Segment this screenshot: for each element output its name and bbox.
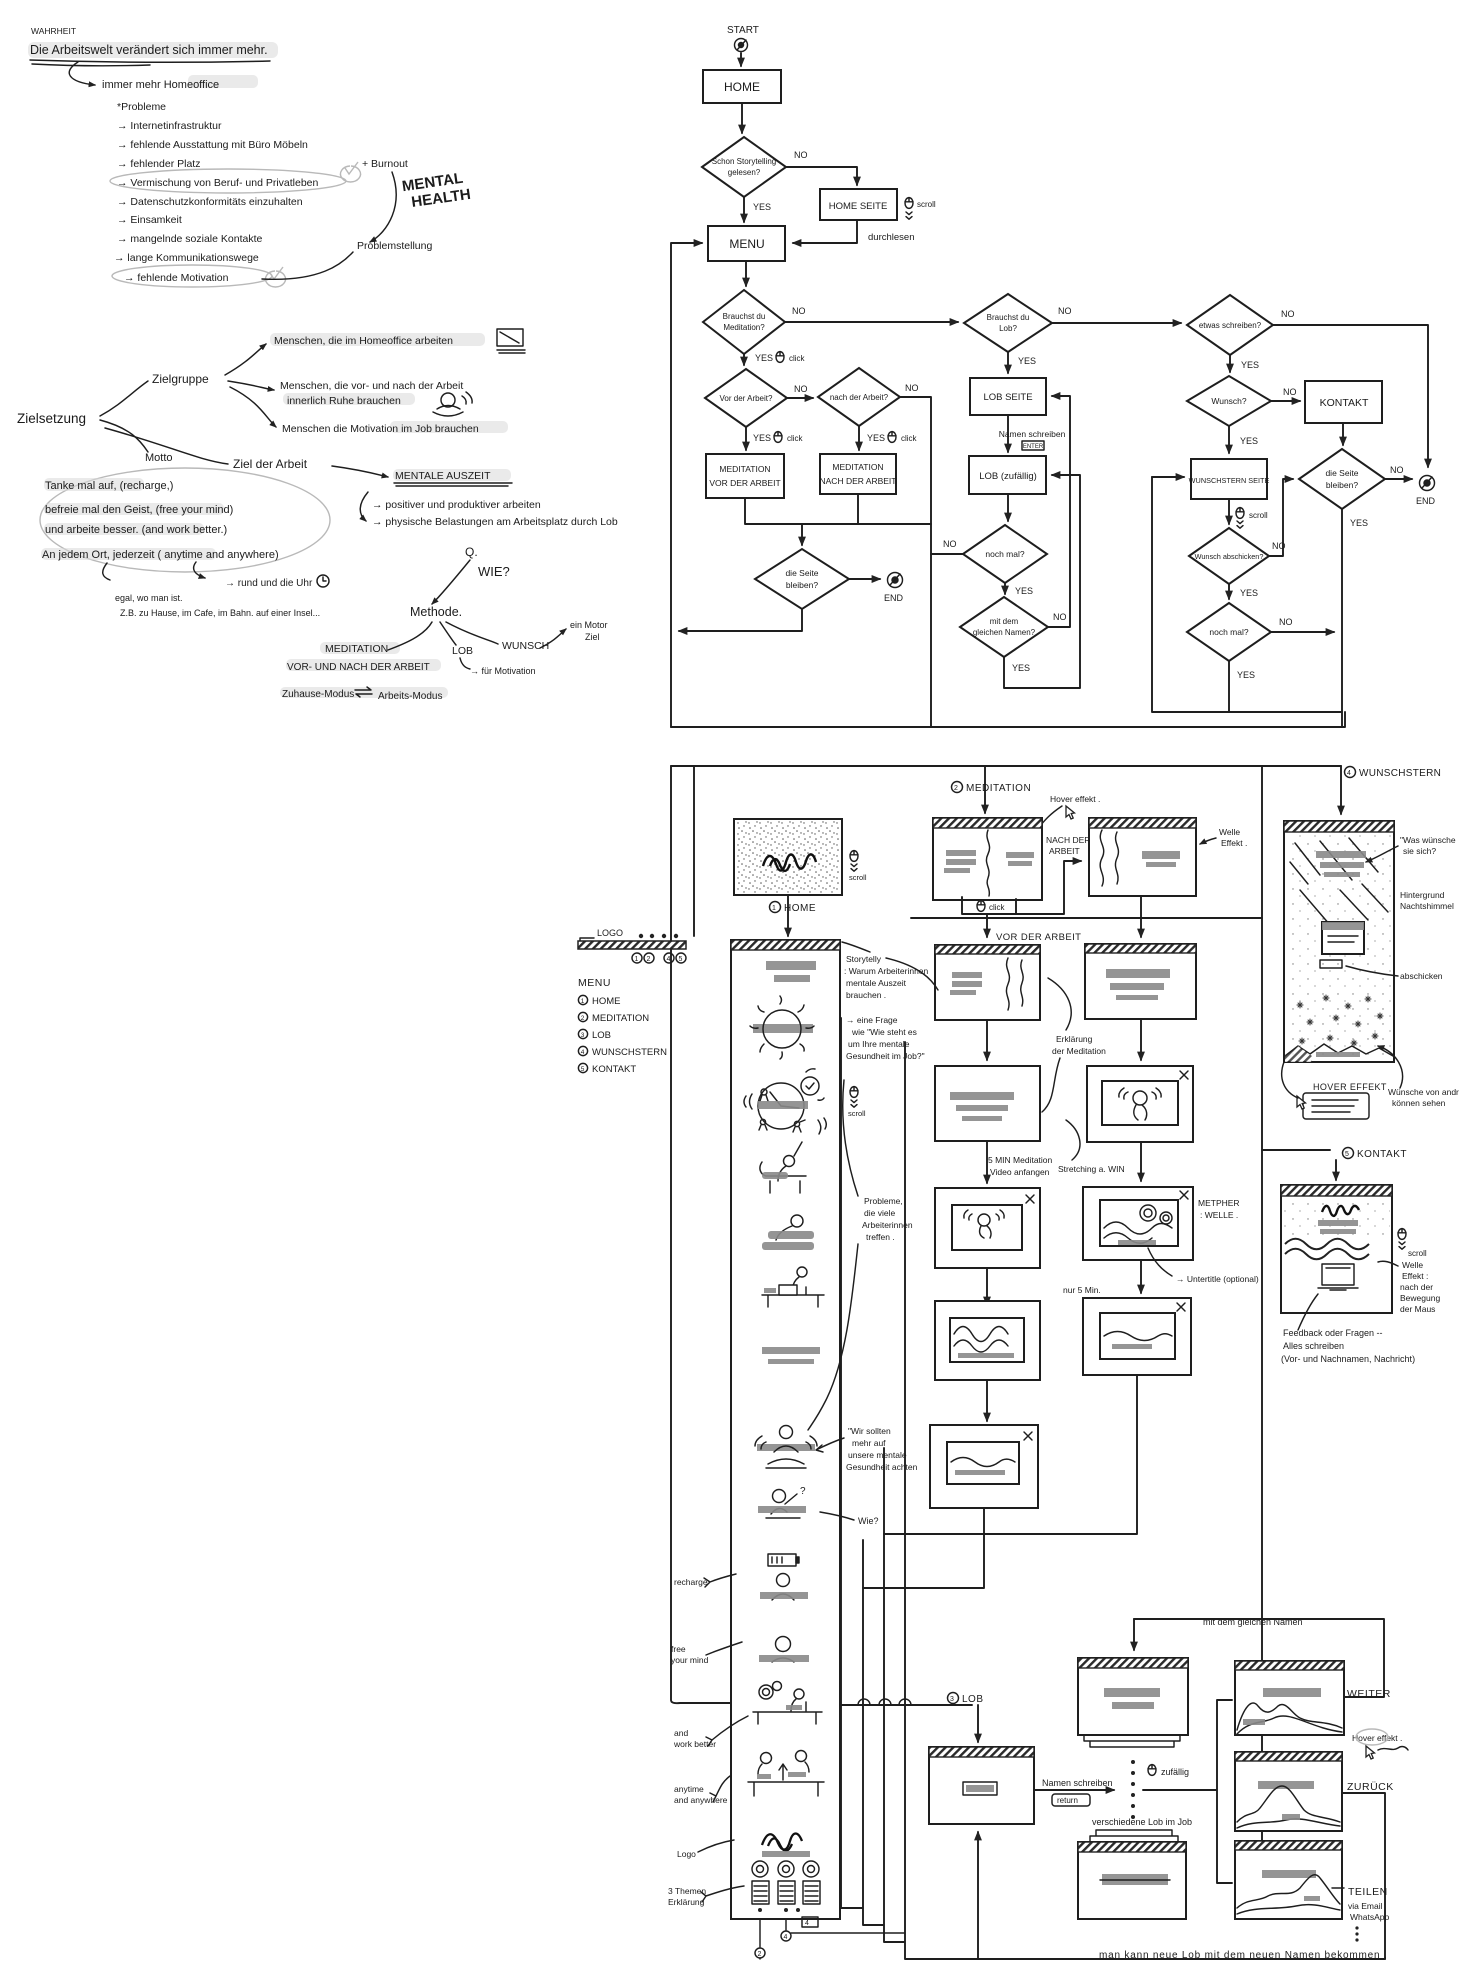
svg-text:KONTAKT: KONTAKT <box>592 1064 636 1075</box>
svg-text:NO: NO <box>1390 465 1404 475</box>
svg-text:anytime: anytime <box>674 1784 704 1794</box>
svg-text:scroll: scroll <box>1249 511 1268 520</box>
svg-text:ein Motor: ein Motor <box>570 620 608 630</box>
svg-text:Hover effekt .: Hover effekt . <box>1050 794 1100 804</box>
svg-text:"Wir sollten: "Wir sollten <box>848 1426 891 1436</box>
svg-text:: Warum Arbeiterinnen: : Warum Arbeiterinnen <box>844 966 929 976</box>
svg-text:WEITER: WEITER <box>1347 1688 1391 1700</box>
svg-text:Arbeits-Modus: Arbeits-Modus <box>378 691 442 702</box>
svg-text:befreie mal den Geist, (free y: befreie mal den Geist, (free your mind) <box>45 504 233 516</box>
svg-text:5: 5 <box>679 956 683 963</box>
svg-text:etwas schreiben?: etwas schreiben? <box>1199 321 1262 330</box>
svg-text:Tanke mal auf, (recharge,): Tanke mal auf, (recharge,) <box>45 480 173 492</box>
svg-text:NACH DER ARBEIT: NACH DER ARBEIT <box>820 476 897 486</box>
svg-text:→ fehlender Platz: → fehlender Platz <box>117 158 200 170</box>
svg-text:2: 2 <box>647 956 651 963</box>
svg-text:END: END <box>1416 496 1436 506</box>
svg-text:Namen schreiben: Namen schreiben <box>1042 1778 1113 1788</box>
svg-text:scroll: scroll <box>848 1109 866 1118</box>
svg-text:WUNSCH: WUNSCH <box>502 640 549 652</box>
svg-text:gleichen Namen?: gleichen Namen? <box>973 628 1036 637</box>
svg-text:NO: NO <box>943 539 957 549</box>
svg-text:YES: YES <box>753 433 771 443</box>
svg-text:Logo: Logo <box>677 1849 696 1859</box>
svg-text:Wunsch abschicken?: Wunsch abschicken? <box>1195 552 1264 561</box>
svg-text:Motto: Motto <box>145 452 173 464</box>
svg-text:die viele: die viele <box>864 1208 895 1218</box>
svg-text:4: 4 <box>667 956 671 963</box>
svg-text:Effekt :: Effekt : <box>1402 1271 1428 1281</box>
svg-text:nach der: nach der <box>1400 1282 1433 1292</box>
svg-text:MEDITATION: MEDITATION <box>325 643 388 655</box>
svg-text:NO: NO <box>792 306 806 316</box>
svg-text:NACH DER: NACH DER <box>1046 835 1090 845</box>
svg-text:YES: YES <box>1240 588 1258 598</box>
svg-text:Brauchst du: Brauchst du <box>723 312 766 321</box>
svg-text:HOME: HOME <box>592 996 621 1007</box>
svg-text:durchlesen: durchlesen <box>868 232 914 243</box>
svg-text:MENU: MENU <box>729 237 764 251</box>
svg-text:5 MIN Meditation: 5 MIN Meditation <box>988 1155 1053 1165</box>
svg-text:nur 5 Min.: nur 5 Min. <box>1063 1285 1101 1295</box>
svg-text:immer mehr Homeoffice: immer mehr Homeoffice <box>102 79 219 91</box>
svg-text:→ positiver und produktiver ar: → positiver und produktiver arbeiten <box>372 499 541 511</box>
svg-text:?: ? <box>800 1486 806 1497</box>
svg-text:3: 3 <box>581 1032 585 1039</box>
svg-text:and: and <box>674 1728 688 1738</box>
svg-text:MENTALE AUSZEIT: MENTALE AUSZEIT <box>395 470 491 482</box>
svg-text:egal, wo man ist.: egal, wo man ist. <box>115 593 183 603</box>
svg-text:die Seite: die Seite <box>785 568 818 578</box>
svg-text:Effekt .: Effekt . <box>1221 838 1247 848</box>
svg-text:3: 3 <box>950 1696 954 1703</box>
svg-text:Problemstellung: Problemstellung <box>357 240 432 252</box>
svg-text:Bewegung: Bewegung <box>1400 1293 1440 1303</box>
svg-text:click: click <box>901 434 918 443</box>
svg-text:*Probleme: *Probleme <box>117 101 166 113</box>
svg-text:NO: NO <box>794 150 808 160</box>
svg-text:recharge: recharge <box>674 1577 708 1587</box>
svg-text:WUNSCHSTERN: WUNSCHSTERN <box>592 1047 667 1058</box>
svg-text:YES: YES <box>1018 356 1036 366</box>
svg-text:YES: YES <box>1237 670 1255 680</box>
svg-text:free: free <box>671 1644 686 1654</box>
svg-text:bleiben?: bleiben? <box>1326 480 1358 490</box>
svg-text:via Email: via Email <box>1348 1901 1383 1911</box>
svg-text:NO: NO <box>1058 306 1072 316</box>
svg-text:nach der Arbeit?: nach der Arbeit? <box>830 393 889 402</box>
svg-text:Storytelly: Storytelly <box>846 954 882 964</box>
svg-text:um Ihre mentale: um Ihre mentale <box>848 1039 910 1049</box>
svg-text:END: END <box>884 593 904 603</box>
svg-text:Zielsetzung: Zielsetzung <box>17 411 86 426</box>
svg-text:mit dem: mit dem <box>990 617 1019 626</box>
svg-text:der Maus: der Maus <box>1400 1304 1435 1314</box>
svg-text:können sehen: können sehen <box>1392 1098 1446 1108</box>
svg-text:ENTER: ENTER <box>1023 444 1044 450</box>
svg-text:Ziel: Ziel <box>585 632 600 642</box>
svg-text:+ Burnout: + Burnout <box>362 158 408 170</box>
svg-text:NO: NO <box>1283 387 1297 397</box>
svg-text:YES: YES <box>1012 663 1030 673</box>
svg-text:→ eine Frage: → eine Frage <box>846 1015 898 1025</box>
svg-text:scroll: scroll <box>849 873 867 882</box>
svg-text:Zuhause-Modus: Zuhause-Modus <box>282 689 354 700</box>
svg-text:WhatsApp: WhatsApp <box>1350 1912 1389 1922</box>
svg-text:noch mal?: noch mal? <box>985 549 1024 559</box>
svg-text:LOB: LOB <box>962 1694 984 1705</box>
svg-text:treffen .: treffen . <box>866 1232 895 1242</box>
svg-text:YES: YES <box>1241 360 1259 370</box>
svg-text:LOB: LOB <box>452 645 473 657</box>
svg-text:MENU: MENU <box>578 977 611 989</box>
svg-text:LOB: LOB <box>592 1030 611 1041</box>
svg-text:NO: NO <box>1279 617 1293 627</box>
svg-text:Lob?: Lob? <box>999 324 1017 333</box>
svg-text:YES: YES <box>1015 586 1033 596</box>
svg-text:zufällig: zufällig <box>1161 1767 1189 1777</box>
svg-text:ZURÜCK: ZURÜCK <box>1347 1781 1394 1793</box>
svg-text:(Vor- und Nachnamen, Nachricht: (Vor- und Nachnamen, Nachricht) <box>1281 1354 1415 1364</box>
svg-text:Methode.: Methode. <box>410 605 462 619</box>
svg-text:Ziel der Arbeit: Ziel der Arbeit <box>233 457 308 471</box>
svg-text:1: 1 <box>581 998 585 1005</box>
svg-text:noch mal?: noch mal? <box>1209 627 1248 637</box>
svg-text:gelesen?: gelesen? <box>728 168 761 177</box>
svg-text:Vor der Arbeit?: Vor der Arbeit? <box>720 394 773 403</box>
svg-text:MEDITATION: MEDITATION <box>966 783 1031 794</box>
svg-text:1: 1 <box>772 905 776 912</box>
svg-text:NO: NO <box>1053 612 1067 622</box>
svg-text:5: 5 <box>1345 1151 1349 1158</box>
svg-text:An jedem Ort, jederzeit ( anyt: An jedem Ort, jederzeit ( anytime and an… <box>42 549 279 561</box>
svg-text:4: 4 <box>581 1049 585 1056</box>
svg-text:und arbeite besser. (and work: und arbeite besser. (and work better.) <box>45 524 227 536</box>
svg-text:→ Datenschutzkonformitäts einz: → Datenschutzkonformitäts einzuhalten <box>117 196 303 208</box>
svg-text:mehr auf: mehr auf <box>852 1438 886 1448</box>
svg-text:click: click <box>789 354 806 363</box>
svg-text:KONTAKT: KONTAKT <box>1320 397 1369 409</box>
svg-text:brauchen .: brauchen . <box>846 990 886 1000</box>
svg-text:"Was wünsche: "Was wünsche <box>1400 835 1456 845</box>
svg-text:VOR DER ARBEIT: VOR DER ARBEIT <box>996 932 1081 943</box>
svg-text:5: 5 <box>581 1066 585 1073</box>
svg-text:VOR DER ARBEIT: VOR DER ARBEIT <box>709 478 780 488</box>
svg-text:1: 1 <box>635 956 639 963</box>
svg-text:click: click <box>787 434 804 443</box>
svg-text:Q.: Q. <box>465 545 478 559</box>
svg-text:NO: NO <box>794 384 808 394</box>
svg-text:2: 2 <box>758 1951 762 1958</box>
svg-text:METPHER: METPHER <box>1198 1198 1240 1208</box>
svg-text:Menschen, die im Homeoffice ar: Menschen, die im Homeoffice arbeiten <box>274 335 453 347</box>
svg-text:Video anfangen: Video anfangen <box>990 1167 1050 1177</box>
svg-text:Welle: Welle <box>1402 1260 1423 1270</box>
svg-text:Wie?: Wie? <box>858 1516 879 1526</box>
svg-text:Erklärung: Erklärung <box>668 1897 705 1907</box>
svg-text:Welle: Welle <box>1219 827 1240 837</box>
svg-text:→ rund und die Uhr: → rund und die Uhr <box>225 578 313 589</box>
svg-text:WUNSCHSTERN: WUNSCHSTERN <box>1359 768 1441 779</box>
svg-text:→ lange Kommunikationswege: → lange Kommunikationswege <box>114 252 259 264</box>
svg-text:wie "Wie steht es: wie "Wie steht es <box>851 1027 917 1037</box>
svg-text:Brauchst du: Brauchst du <box>987 313 1030 322</box>
svg-text:→ Einsamkeit: → Einsamkeit <box>117 214 182 226</box>
svg-text:4: 4 <box>784 1934 788 1941</box>
svg-text:WIE?: WIE? <box>478 564 510 579</box>
svg-text:innerlich Ruhe brauchen: innerlich Ruhe brauchen <box>287 395 401 407</box>
svg-text:der Meditation: der Meditation <box>1052 1046 1106 1056</box>
svg-text:MEDITATION: MEDITATION <box>719 464 770 474</box>
svg-text:YES: YES <box>1350 518 1368 528</box>
svg-text:unsere mentale: unsere mentale <box>848 1450 907 1460</box>
svg-text:Nachtshimmel: Nachtshimmel <box>1400 901 1454 911</box>
svg-text:Gesundheit im Job?": Gesundheit im Job?" <box>846 1051 925 1061</box>
svg-text:NO: NO <box>905 383 919 393</box>
svg-text:HOME: HOME <box>724 80 760 94</box>
svg-text:Stretching a. WIN: Stretching a. WIN <box>1058 1164 1125 1174</box>
svg-text:→ fehlende Motivation: → fehlende Motivation <box>124 272 229 284</box>
svg-text:Alles schreiben: Alles schreiben <box>1283 1341 1344 1351</box>
svg-text:return: return <box>1057 1796 1078 1805</box>
svg-text:4: 4 <box>1347 770 1351 777</box>
svg-text:ARBEIT: ARBEIT <box>1049 846 1080 856</box>
svg-text:YES: YES <box>1240 436 1258 446</box>
svg-text:WAHRHEIT: WAHRHEIT <box>31 26 76 36</box>
svg-text:Erklärung: Erklärung <box>1056 1034 1093 1044</box>
svg-text:Z.B. zu Hause, im Cafe, im Bah: Z.B. zu Hause, im Cafe, im Bahn. auf ein… <box>120 608 320 618</box>
svg-text:YES: YES <box>753 202 771 212</box>
svg-text:Hintergrund: Hintergrund <box>1400 890 1445 900</box>
svg-text:→ Vermischung von Beruf- und P: → Vermischung von Beruf- und Privatleben <box>117 177 319 189</box>
svg-text:WUNSCHSTERN SEITE: WUNSCHSTERN SEITE <box>1189 476 1270 485</box>
svg-text:scroll: scroll <box>917 200 936 209</box>
svg-text:3 Themen: 3 Themen <box>668 1886 706 1896</box>
svg-text:NO: NO <box>1281 309 1295 319</box>
svg-text:→ für Motivation: → für Motivation <box>470 666 536 676</box>
svg-text:MEDITATION: MEDITATION <box>592 1013 649 1024</box>
svg-text:YES: YES <box>755 353 773 363</box>
svg-text:LOB (zufällig): LOB (zufällig) <box>979 471 1037 482</box>
svg-text:KONTAKT: KONTAKT <box>1357 1149 1407 1160</box>
svg-text:HOME: HOME <box>784 903 816 914</box>
svg-text:LOGO: LOGO <box>597 928 623 938</box>
svg-text:TEILEN: TEILEN <box>1348 1886 1388 1898</box>
svg-text:→ Untertitle (optional): → Untertitle (optional) <box>1176 1274 1259 1284</box>
svg-text:→ Internetinfrastruktur: → Internetinfrastruktur <box>117 120 222 132</box>
svg-text:HOME SEITE: HOME SEITE <box>829 201 888 212</box>
svg-text:VOR- UND NACH DER ARBEIT: VOR- UND NACH DER ARBEIT <box>287 662 430 673</box>
svg-text:your mind: your mind <box>671 1655 709 1665</box>
svg-text:and anywhere: and anywhere <box>674 1795 728 1805</box>
svg-text:verschiedene Lob im Job: verschiedene Lob im Job <box>1092 1817 1192 1827</box>
svg-text:man kann neue Lob mit dem neue: man kann neue Lob mit dem neuen Namen be… <box>1099 1950 1388 1961</box>
svg-text:click: click <box>989 903 1006 912</box>
svg-text:4: 4 <box>805 1920 809 1927</box>
svg-text:→ fehlende Ausstattung mit Bür: → fehlende Ausstattung mit Büro Möbeln <box>117 139 308 151</box>
svg-text:Schon Storytelling: Schon Storytelling <box>712 157 776 166</box>
svg-text:2: 2 <box>954 785 958 792</box>
svg-text:Menschen, die vor- und nach de: Menschen, die vor- und nach der Arbeit <box>280 380 463 392</box>
svg-text:die Seite: die Seite <box>1325 468 1358 478</box>
svg-text:Menschen die Motivation im Job: Menschen die Motivation im Job brauchen <box>282 423 479 435</box>
svg-text:Zielgruppe: Zielgruppe <box>152 372 209 386</box>
svg-text:2: 2 <box>581 1015 585 1022</box>
svg-text:Gesundheit achten: Gesundheit achten <box>846 1462 918 1472</box>
svg-text:Die Arbeitswelt verändert sich: Die Arbeitswelt verändert sich immer meh… <box>30 43 268 57</box>
svg-text:LOB SEITE: LOB SEITE <box>983 392 1032 403</box>
svg-text:START: START <box>727 25 759 36</box>
svg-text:→ mangelnde soziale Kontakte: → mangelnde soziale Kontakte <box>117 233 262 245</box>
svg-text:→ physische Belastungen am Arb: → physische Belastungen am Arbeitsplatz … <box>372 516 618 528</box>
svg-text:MEDITATION: MEDITATION <box>832 462 883 472</box>
svg-text:abschicken: abschicken <box>1400 971 1443 981</box>
svg-text:sie sich?: sie sich? <box>1403 846 1436 856</box>
svg-text:YES: YES <box>867 433 885 443</box>
svg-text:: WELLE .: : WELLE . <box>1200 1210 1238 1220</box>
svg-text:Wunsch?: Wunsch? <box>1211 396 1247 406</box>
svg-text:bleiben?: bleiben? <box>786 580 818 590</box>
svg-text:Meditation?: Meditation? <box>723 323 765 332</box>
svg-text:scroll: scroll <box>1408 1249 1427 1258</box>
svg-text:mentale Auszeit: mentale Auszeit <box>846 978 907 988</box>
svg-text:Probleme,: Probleme, <box>864 1196 903 1206</box>
svg-text:HOVER EFFEKT: HOVER EFFEKT <box>1313 1082 1387 1092</box>
svg-text:Wünsche von andre: Wünsche von andre <box>1388 1087 1459 1097</box>
